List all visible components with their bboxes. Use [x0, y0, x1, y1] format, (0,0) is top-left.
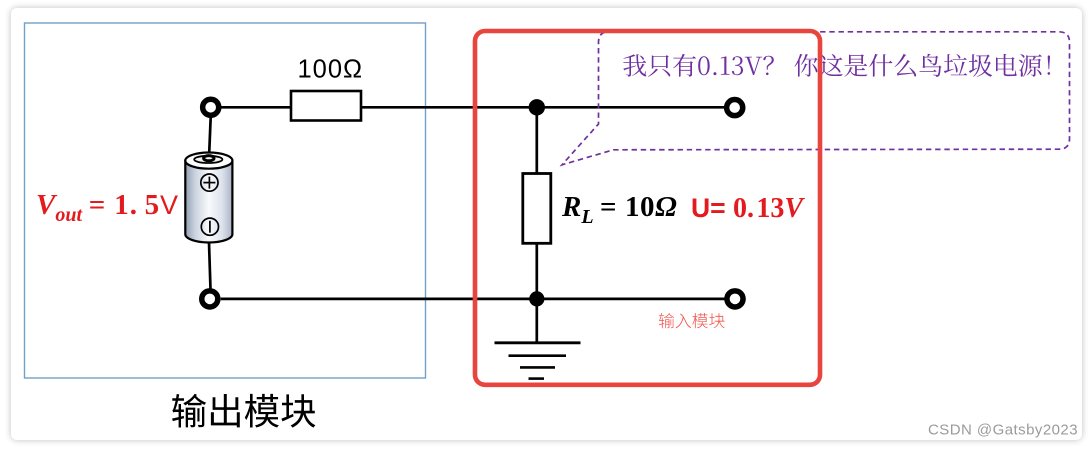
svg-text:RL = 10Ω: RL = 10Ω [561, 191, 677, 228]
wire: resistor RL down to node B [535, 243, 538, 299]
bubble text [623, 54, 1050, 77]
wire: battery negative to bottom-left terminal [209, 243, 211, 290]
wire: node B to bottom-right terminal [537, 298, 725, 301]
node B junction dot [529, 291, 544, 306]
terminal (top right, input) [727, 100, 743, 116]
label input module (shuru mokuai) [659, 313, 725, 328]
speech bubble (callout) [562, 32, 1070, 165]
label output module (shuchu mokuai) [172, 394, 315, 428]
svg-text:Vout = 1. 5V: Vout = 1. 5V [36, 189, 178, 226]
battery top inner ring [194, 156, 222, 163]
wire: node B down to ground [535, 299, 538, 343]
terminal (bottom left) [202, 291, 218, 307]
battery positive nub [204, 156, 214, 161]
wire: node A to input terminal (top right) [537, 106, 725, 109]
battery plus symbol [201, 174, 218, 191]
resistor RL (10 ohm) [523, 174, 551, 244]
svg-text:U= 0. 13V: U= 0. 13V [691, 193, 805, 224]
battery top ellipse [185, 153, 232, 169]
battery minus symbol [201, 218, 218, 235]
wire: top-left terminal down to battery positive nub [209, 117, 211, 158]
svg-text:100Ω: 100Ω [298, 56, 364, 84]
wire: top-left terminal to resistor R1 [221, 106, 291, 109]
terminal (bottom right) [727, 291, 743, 307]
svg-text:CSDN @Gatsby2023: CSDN @Gatsby2023 [928, 422, 1078, 439]
terminal (top left) [203, 99, 219, 115]
node A junction dot [529, 99, 545, 115]
input module box (red) [475, 31, 820, 385]
resistor R1 (100 ohm) [291, 91, 361, 121]
ground symbol [495, 343, 581, 379]
wire: bottom-left terminal to node B [221, 298, 537, 301]
battery BT1 body [185, 153, 232, 243]
output module box (blue) [25, 23, 426, 378]
wire: resistor R1 to node A [361, 106, 537, 109]
wire: node A down to resistor RL [535, 107, 538, 173]
